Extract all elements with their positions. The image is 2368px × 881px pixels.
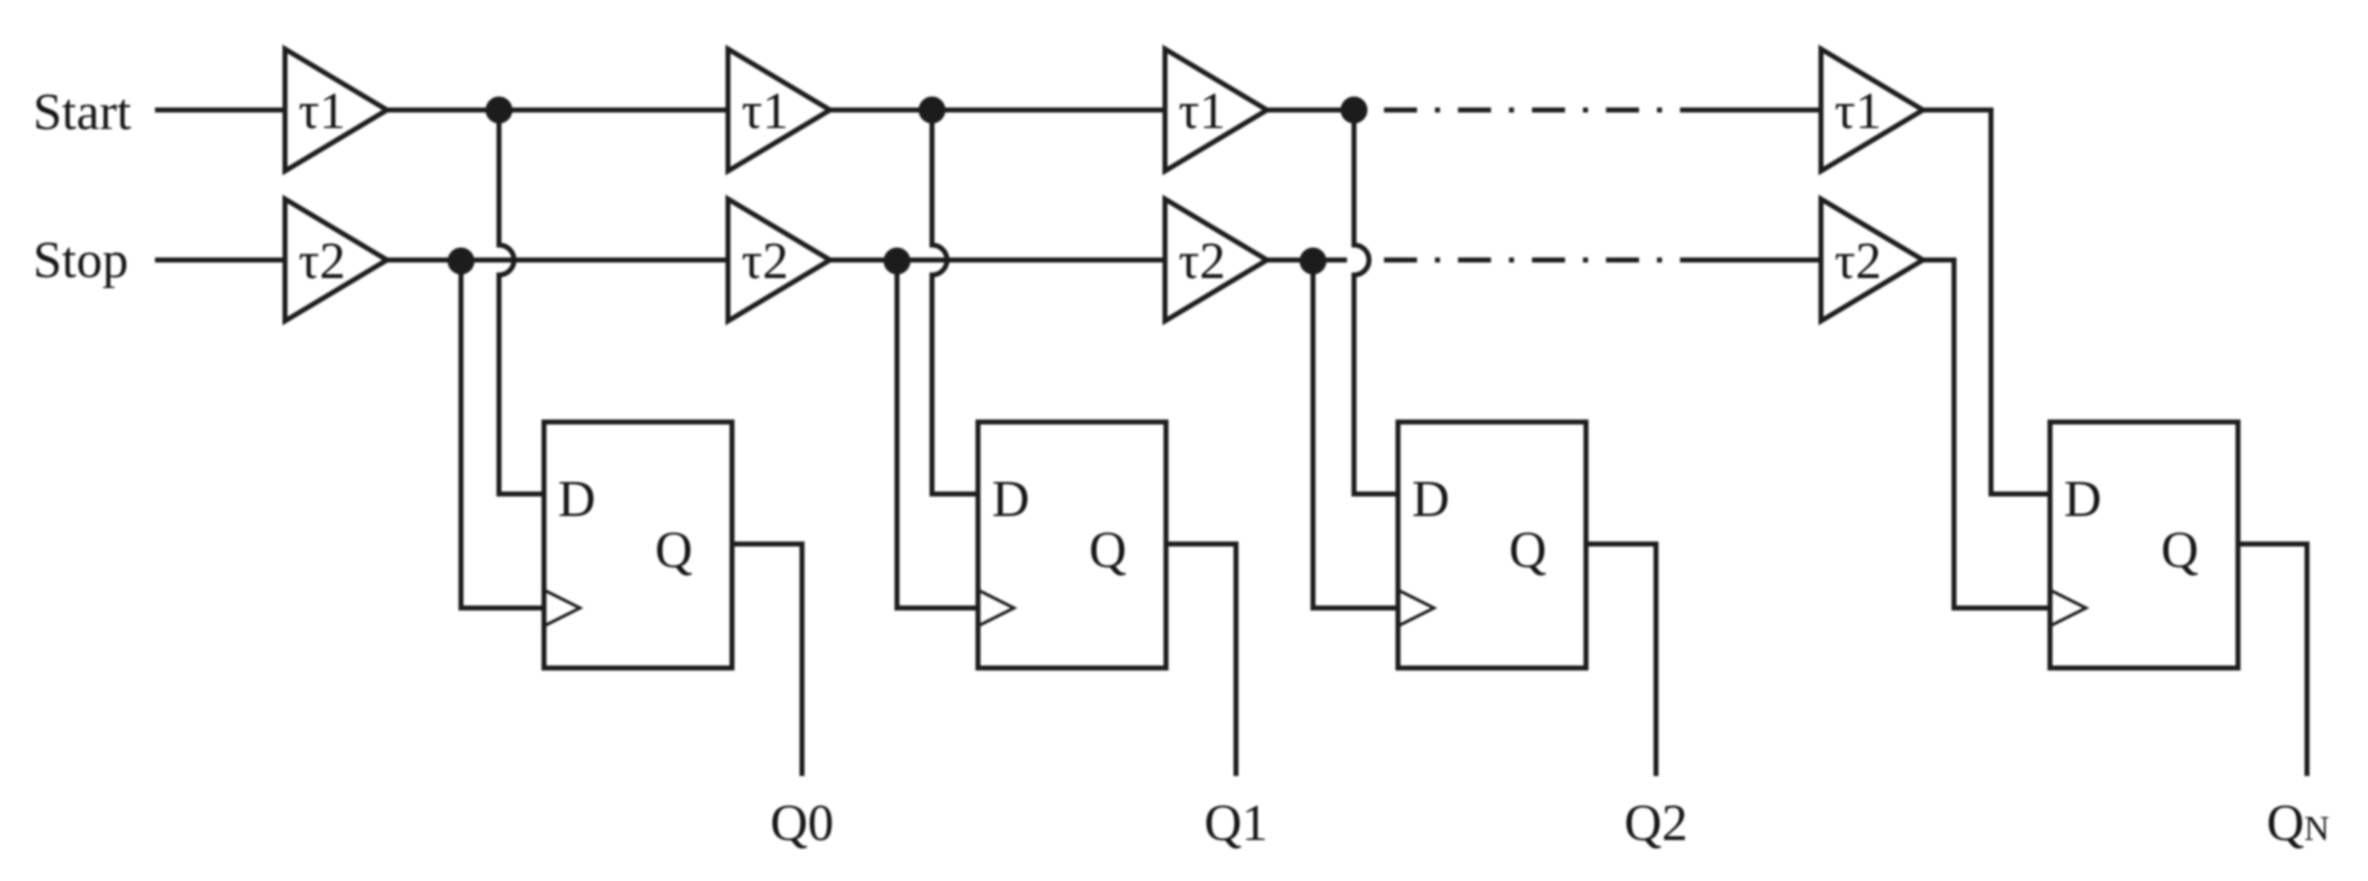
wire row1 stage1 to stage2	[387, 108, 728, 113]
buffer U4 (τ2 stage 2)	[728, 199, 830, 321]
svg-text:D: D	[558, 471, 596, 528]
wire D3 with hop	[1354, 110, 1398, 494]
wire row2 dash-dot continuation	[1384, 258, 1680, 263]
flip-flop FFN	[2050, 422, 2238, 668]
svg-text:τ2: τ2	[1835, 233, 1882, 290]
wire row1 solid before stage4	[1680, 108, 1821, 113]
buffer U6 (τ2 stage 3)	[1165, 199, 1267, 321]
buffer U2 (τ2 stage 1)	[285, 199, 387, 321]
svg-text:D: D	[992, 471, 1030, 528]
wire Q0 out	[732, 544, 802, 776]
svg-text:τ1: τ1	[1179, 83, 1226, 140]
svg-text:τ2: τ2	[1179, 233, 1226, 290]
buffer U7 (τ1 stage N)	[1821, 49, 1923, 171]
wire DN	[1923, 110, 2050, 494]
wire CLK1	[461, 260, 544, 608]
node B3 (stop tap 3)	[1300, 248, 1327, 275]
wire row2 stage3 stub	[1267, 258, 1347, 263]
wire CLK3	[1313, 260, 1398, 608]
svg-text:Q: Q	[2161, 522, 2199, 579]
svg-text:D: D	[1412, 471, 1450, 528]
wire row1 stage3 stub	[1267, 108, 1358, 113]
svg-text:Q: Q	[1089, 522, 1127, 579]
flip-flop FF1	[544, 422, 732, 668]
node B1 (stop tap 1)	[448, 248, 475, 275]
wire Q1 out	[1166, 544, 1236, 776]
svg-text:Q1: Q1	[1204, 795, 1268, 852]
svg-text:τ1: τ1	[299, 83, 346, 140]
wire CLK2	[897, 260, 978, 608]
buffer U3 (τ1 stage 2)	[728, 49, 830, 171]
buffer U8 (τ2 stage N)	[1821, 199, 1923, 321]
wire row1 stage2 to stage3	[830, 108, 1165, 113]
svg-text:Q0: Q0	[770, 795, 834, 852]
svg-text:τ2: τ2	[299, 233, 346, 290]
flip-flop FF3	[1398, 422, 1586, 668]
wire Q2 out	[1586, 544, 1656, 776]
wire row2 solid before stage4	[1680, 258, 1821, 263]
wire row2 stage2 to stage3	[830, 258, 1165, 263]
wire QN out	[2238, 544, 2307, 776]
flip-flop FF2	[978, 422, 1166, 668]
svg-text:QN: QN	[2267, 795, 2330, 852]
buffer U5 (τ1 stage 3)	[1165, 49, 1267, 171]
wire row2 stage1 to stage2	[387, 258, 728, 263]
svg-text:Stop: Stop	[33, 232, 128, 289]
wire Stop input	[155, 258, 285, 263]
wire D2 with hop	[932, 110, 978, 494]
svg-text:τ1: τ1	[742, 83, 789, 140]
wire row1 dash-dot continuation	[1384, 108, 1680, 113]
svg-text:Q: Q	[655, 522, 693, 579]
wire CLKN	[1923, 260, 2050, 608]
svg-text:D: D	[2064, 471, 2102, 528]
node B2 (stop tap 2)	[884, 248, 911, 275]
svg-text:Q: Q	[1509, 522, 1547, 579]
buffer U1 (τ1 stage 1)	[285, 49, 387, 171]
wire D1 with hop	[499, 110, 544, 494]
node A2 (start tap 2)	[919, 97, 946, 124]
svg-text:Q2: Q2	[1624, 795, 1688, 852]
svg-text:Start: Start	[33, 84, 132, 141]
svg-text:τ1: τ1	[1835, 83, 1882, 140]
node A3 (start tap 3)	[1341, 97, 1368, 124]
node A1 (start tap 1)	[486, 97, 513, 124]
svg-text:τ2: τ2	[742, 233, 789, 290]
wire Start input	[155, 108, 285, 113]
